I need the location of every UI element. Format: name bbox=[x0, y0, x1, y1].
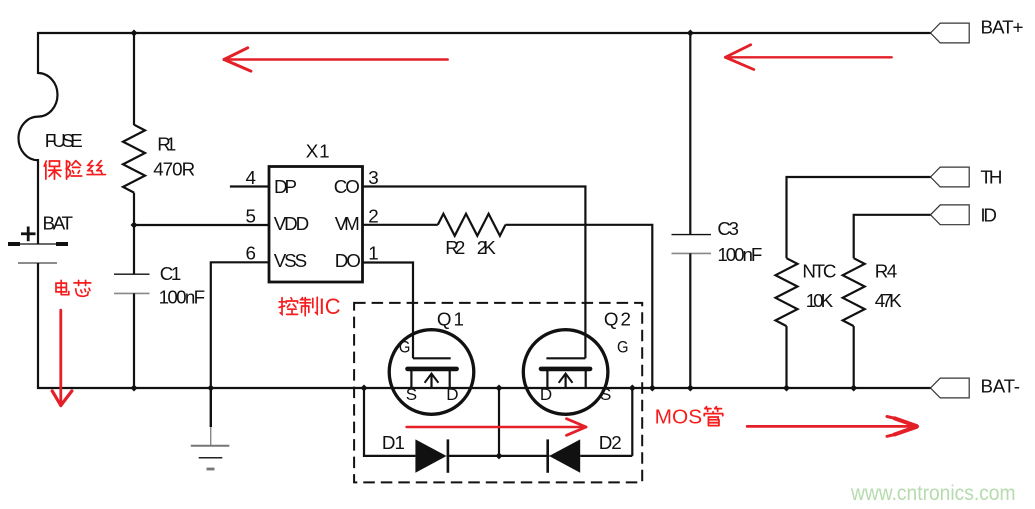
svg-text:G: G bbox=[399, 337, 411, 356]
svg-text:1: 1 bbox=[368, 242, 378, 263]
svg-text:IC: IC bbox=[319, 294, 341, 319]
svg-text:470R: 470R bbox=[153, 159, 195, 180]
svg-text:10K: 10K bbox=[806, 290, 834, 311]
wire left drop to fuse bbox=[37, 32, 39, 74]
resistor R2 bbox=[438, 214, 506, 236]
red arrow bottom-right (current flow) bbox=[747, 417, 918, 437]
wire NTC to rail bbox=[785, 326, 787, 389]
svg-text:S: S bbox=[600, 385, 611, 404]
svg-text:S: S bbox=[406, 385, 417, 404]
svg-text:BAT: BAT bbox=[43, 213, 74, 234]
terminal flag BAT- bbox=[931, 378, 970, 398]
IC X1 body bbox=[269, 167, 363, 283]
wire VDD net to R1/C1 column bbox=[134, 224, 269, 226]
resistor NTC bbox=[776, 258, 798, 326]
wire top rail BAT+ net bbox=[37, 32, 931, 34]
svg-text:R2: R2 bbox=[445, 237, 465, 258]
resistor R4 bbox=[843, 258, 865, 326]
annotation MOS管 red text bbox=[655, 405, 723, 428]
svg-text:Q2: Q2 bbox=[604, 309, 631, 330]
svg-text:CO: CO bbox=[334, 176, 360, 197]
wire battery to bottom rail bbox=[37, 263, 39, 389]
svg-text:BAT+: BAT+ bbox=[981, 17, 1024, 38]
terminal flag TH bbox=[931, 167, 970, 187]
annotation 电芯 (battery cell) red text bbox=[56, 280, 91, 296]
svg-text:X1: X1 bbox=[306, 140, 330, 161]
capacitor C3 bbox=[672, 32, 712, 389]
svg-text:ID: ID bbox=[980, 205, 997, 226]
pin 4 stub DP bbox=[230, 185, 269, 187]
svg-text:NTC: NTC bbox=[802, 261, 836, 282]
svg-text:D1: D1 bbox=[382, 432, 405, 453]
wire bottom rail BAT- net bbox=[37, 387, 931, 389]
red arrow in MOS box (current flow) bbox=[407, 419, 587, 436]
wire fuse to battery bbox=[37, 159, 39, 244]
pin 2 wire VM net left segment bbox=[363, 224, 438, 226]
svg-text:47K: 47K bbox=[875, 290, 902, 311]
MOS dashed box bbox=[354, 303, 642, 483]
svg-text:DP: DP bbox=[274, 176, 297, 197]
wire VSS net bbox=[211, 262, 269, 389]
resistor R1 bbox=[123, 32, 145, 275]
wire diode branch left bbox=[364, 388, 415, 456]
svg-text:D: D bbox=[446, 385, 458, 404]
svg-text:VSS: VSS bbox=[274, 250, 308, 271]
svg-text:VDD: VDD bbox=[274, 213, 310, 234]
svg-text:100nF: 100nF bbox=[717, 244, 762, 265]
pin 1 wire DO net to Q1 gate bbox=[363, 263, 413, 359]
svg-text:TH: TH bbox=[980, 167, 1002, 188]
svg-text:R4: R4 bbox=[875, 261, 898, 282]
wire ID net bbox=[854, 215, 931, 258]
svg-text:4: 4 bbox=[246, 167, 256, 188]
red arrow top-right (current flow) bbox=[725, 45, 891, 70]
svg-text:2: 2 bbox=[368, 205, 378, 226]
diode D1 bbox=[415, 439, 499, 472]
ground bbox=[191, 388, 230, 469]
svg-text:BAT-: BAT- bbox=[981, 376, 1021, 397]
wire diode mid branch bbox=[498, 388, 500, 456]
battery BAT cell bbox=[8, 227, 68, 264]
node junction dots bbox=[131, 30, 858, 460]
svg-text:Q1: Q1 bbox=[437, 309, 464, 330]
wire diode branch right bbox=[631, 388, 633, 456]
svg-text:G: G bbox=[617, 337, 629, 356]
svg-text:C1: C1 bbox=[160, 263, 182, 284]
svg-text:2K: 2K bbox=[477, 237, 496, 258]
svg-text:100nF: 100nF bbox=[159, 287, 206, 308]
wire R4 to rail bbox=[853, 326, 855, 389]
diode D2 bbox=[499, 439, 632, 472]
svg-text:5: 5 bbox=[246, 205, 256, 226]
transistor Q2 bbox=[523, 330, 608, 415]
red arrow down-left (current flow) bbox=[52, 310, 72, 405]
terminal flag ID bbox=[931, 205, 970, 225]
svg-text:6: 6 bbox=[246, 242, 256, 263]
svg-text:www.cntronics.com: www.cntronics.com bbox=[850, 481, 1015, 505]
annotation 控制IC (control IC) red text bbox=[279, 294, 341, 319]
terminal flag BAT+ bbox=[931, 23, 970, 43]
red arrow top-left (current flow) bbox=[224, 48, 448, 71]
fuse FUSE bbox=[19, 73, 58, 160]
svg-text:D: D bbox=[540, 385, 552, 404]
svg-text:MOS: MOS bbox=[655, 405, 703, 428]
svg-text:3: 3 bbox=[368, 167, 378, 188]
svg-text:DO: DO bbox=[335, 250, 361, 271]
capacitor C1 bbox=[114, 274, 150, 389]
svg-text:D2: D2 bbox=[599, 432, 622, 453]
transistor Q1 bbox=[389, 330, 474, 415]
svg-text:R1: R1 bbox=[157, 134, 176, 155]
annotation 保险丝 (fuse) red text bbox=[44, 161, 105, 179]
svg-text:C3: C3 bbox=[717, 218, 739, 239]
svg-text:VM: VM bbox=[335, 213, 360, 234]
wire VM net right segment bbox=[505, 225, 652, 389]
svg-text:FUSE: FUSE bbox=[45, 130, 83, 151]
pin 3 wire CO net to Q2 gate bbox=[363, 187, 585, 359]
wire TH net bbox=[787, 177, 931, 258]
